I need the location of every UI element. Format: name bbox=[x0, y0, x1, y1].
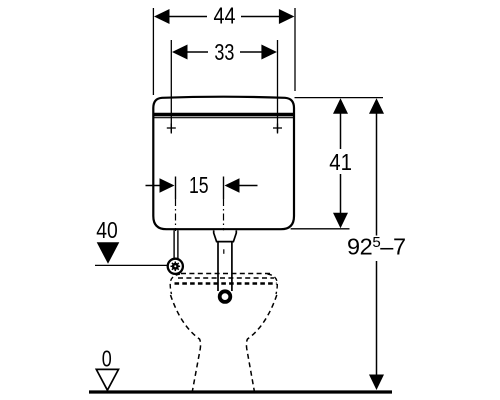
dim 41 line lower segment bbox=[340, 174, 342, 214]
floor line bbox=[89, 390, 392, 393]
svg-text:41: 41 bbox=[329, 149, 352, 175]
bowl rim middle dashed line bbox=[178, 277, 274, 279]
svg-text:44: 44 bbox=[214, 3, 236, 29]
bowl rim right end curve bbox=[268, 274, 278, 294]
svg-text:40: 40 bbox=[96, 217, 118, 243]
flush pipe right wall bbox=[231, 242, 233, 291]
cistern lid thin line bbox=[154, 117, 293, 119]
dim 44 right arrowhead bbox=[279, 9, 295, 24]
dim 44 right extension line bbox=[294, 8, 296, 91]
right mounting hole cross mark bbox=[273, 124, 282, 133]
dim 15 right arrowhead bbox=[225, 178, 240, 193]
inlet valve gear bbox=[171, 262, 181, 272]
svg-text:15: 15 bbox=[189, 172, 209, 198]
water inlet pipe right wall bbox=[177, 230, 179, 258]
dim 33 right extension line bbox=[277, 40, 279, 134]
svg-text:0: 0 bbox=[102, 345, 112, 371]
cistern tank outline bbox=[153, 97, 294, 230]
dim 15 left arrowhead bbox=[160, 178, 175, 193]
dim 92 bottom arrowhead bbox=[369, 375, 384, 391]
svg-text:33: 33 bbox=[214, 39, 234, 65]
dim 41 top arrowhead bbox=[333, 98, 348, 114]
dim 15 left tick bbox=[175, 177, 177, 200]
cistern lid bottom thick line bbox=[153, 113, 294, 117]
bowl rim bottom dashed line bbox=[175, 282, 277, 285]
dim 44 left extension line bbox=[152, 8, 154, 95]
dim 33 left extension line bbox=[170, 40, 172, 134]
dim 33 line left segment bbox=[186, 51, 208, 53]
dim 41 bottom arrowhead bbox=[333, 213, 348, 229]
dim 33 line right segment bbox=[240, 51, 263, 53]
left mounting hole cross mark bbox=[167, 124, 176, 133]
flush valve centre line (dash-dot) bbox=[223, 199, 225, 231]
dim 44 line right segment bbox=[241, 16, 280, 18]
dim 33 left arrowhead bbox=[172, 45, 188, 60]
inlet valve circle bbox=[168, 259, 183, 274]
flush valve housing bbox=[214, 230, 237, 241]
bowl rim left end curve bbox=[170, 274, 180, 294]
level 40 filled triangle marker bbox=[97, 242, 120, 263]
flush valve centre line lower dash bbox=[223, 249, 225, 254]
dim 15 left leader line bbox=[146, 185, 162, 187]
dim 92 top arrowhead bbox=[369, 98, 384, 114]
bowl rim top dashed line bbox=[181, 273, 270, 275]
water inlet pipe left wall bbox=[173, 230, 175, 258]
level 40 leader line bbox=[95, 264, 167, 266]
dim 41 line upper segment bbox=[340, 113, 342, 149]
dim 15 right tick bbox=[223, 177, 225, 200]
inlet centre line (dash-dot) bbox=[175, 199, 177, 231]
dim 15 right leader line bbox=[239, 185, 258, 187]
top right extension line bbox=[295, 97, 384, 99]
dim 33 right arrowhead bbox=[261, 45, 277, 60]
bowl right side dashed bbox=[246, 295, 276, 392]
dim 92 line upper segment bbox=[376, 113, 378, 236]
dim 92 line lower segment bbox=[376, 261, 378, 376]
flush pipe outlet ring bbox=[220, 291, 231, 302]
flush pipe left wall bbox=[217, 242, 219, 291]
dim 41 bottom extension line bbox=[291, 228, 350, 230]
dim 44 line left segment bbox=[168, 16, 207, 18]
dim 44 left arrowhead bbox=[154, 9, 170, 24]
datum 0 open triangle marker bbox=[96, 369, 118, 390]
bowl left side dashed bbox=[171, 295, 201, 392]
